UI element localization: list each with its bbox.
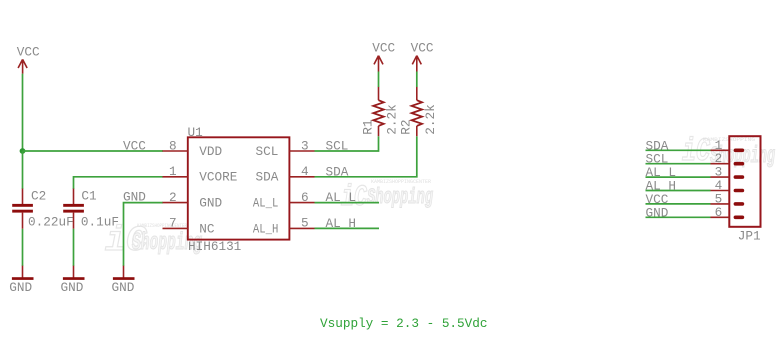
JP1 pin 1: [711, 138, 745, 153]
svg-text:NC: NC: [199, 221, 215, 236]
svg-text:VCC: VCC: [411, 41, 434, 56]
IC U1 HIH6131 body: [188, 125, 290, 254]
svg-text:VDD: VDD: [199, 144, 222, 159]
pin 4 (SDA): [289, 164, 314, 179]
junction node: [20, 148, 26, 154]
svg-text:5: 5: [301, 216, 309, 231]
pin 5 (AL_H): [289, 216, 314, 231]
wire SDA to JP1 pin 1: [646, 149, 711, 151]
wire pin 2 to ground: [124, 203, 164, 266]
wire SDA to R2: [315, 136, 417, 177]
svg-text:SCL: SCL: [256, 144, 279, 159]
svg-text:U1: U1: [188, 125, 203, 140]
wire junction to pin 8: [23, 150, 164, 152]
pin 3 (SCL): [289, 138, 314, 153]
svg-text:3: 3: [301, 138, 309, 153]
svg-text:R1: R1: [360, 119, 375, 134]
svg-text:GND: GND: [199, 196, 222, 211]
svg-text:0.22uF: 0.22uF: [28, 215, 74, 230]
wire GND to JP1 pin 6: [646, 216, 711, 218]
svg-text:C2: C2: [31, 189, 46, 204]
svg-text:VCC: VCC: [123, 139, 146, 154]
svg-text:8: 8: [169, 138, 177, 153]
svg-text:GND: GND: [61, 280, 84, 295]
svg-text:GND: GND: [9, 280, 32, 295]
wire AL_L to JP1 pin 3: [646, 176, 711, 178]
pin 6 (AL_L): [289, 190, 314, 205]
svg-text:6: 6: [715, 205, 723, 220]
wire AL_H to JP1 pin 4: [646, 190, 711, 192]
svg-text:VCC: VCC: [17, 45, 40, 60]
power VCC symbol (above R1): [372, 41, 395, 72]
wire junction down to C2: [22, 151, 24, 189]
wire SCL to JP1 pin 2: [646, 163, 711, 165]
pin 8 (VDD): [163, 138, 188, 153]
svg-text:7: 7: [169, 216, 177, 231]
svg-text:2.2k: 2.2k: [423, 104, 438, 134]
wire VCC to JP1 pin 5: [646, 203, 711, 205]
svg-text:VCORE: VCORE: [199, 170, 237, 185]
wire SCL to R1: [315, 136, 379, 151]
JP1 pin 4: [711, 178, 745, 193]
svg-text:6: 6: [301, 190, 309, 205]
ground (under C1): [61, 266, 85, 295]
JP1 pin 2: [711, 151, 745, 166]
svg-text:VCC: VCC: [372, 41, 395, 56]
capacitor C2: [12, 189, 73, 230]
resistor R1: [360, 87, 399, 137]
svg-text:Shopping: Shopping: [367, 185, 433, 210]
capacitor C1: [63, 189, 119, 230]
svg-text:AL_L: AL_L: [253, 196, 279, 211]
JP1 pin 3: [711, 165, 745, 180]
connector JP1 body: [729, 136, 760, 243]
wire C1 to ground: [73, 229, 75, 266]
svg-text:Vsupply = 2.3 - 5.5Vdc: Vsupply = 2.3 - 5.5Vdc: [320, 316, 488, 331]
wire AL_H stub: [315, 227, 380, 229]
power VCC symbol (top left): [17, 45, 40, 74]
svg-text:C1: C1: [81, 189, 96, 204]
svg-text:0.1uF: 0.1uF: [81, 215, 119, 230]
svg-text:KAMBIZSHOPPINGCENTER: KAMBIZSHOPPINGCENTER: [371, 178, 432, 185]
wire pin 1 to C1: [74, 177, 164, 189]
wire AL_L stub: [315, 202, 380, 204]
power VCC symbol (above R2): [411, 41, 434, 72]
svg-text:4: 4: [301, 164, 309, 179]
ground (pin 2 net): [112, 266, 135, 295]
svg-text:R2: R2: [399, 119, 414, 134]
wire VCC to R1: [378, 72, 380, 88]
JP1 pin 6: [711, 205, 745, 220]
svg-text:2.2k: 2.2k: [385, 104, 400, 134]
JP1 pin 5: [711, 191, 745, 206]
svg-text:1: 1: [169, 164, 177, 179]
svg-text:AL_H: AL_H: [253, 221, 279, 236]
ground (under C2): [9, 266, 33, 295]
wire VCC down to junction: [22, 74, 24, 151]
resistor R2: [399, 87, 438, 137]
svg-text:GND: GND: [112, 280, 135, 295]
svg-text:SDA: SDA: [256, 170, 279, 185]
wire VCC to R2: [416, 72, 418, 88]
svg-text:2: 2: [169, 190, 177, 205]
svg-text:JP1: JP1: [738, 229, 761, 244]
wire C2 to ground: [22, 229, 24, 266]
pin 7 (NC): [163, 216, 188, 231]
svg-text:HIH6131: HIH6131: [188, 239, 241, 254]
pin 1 (VCORE): [163, 164, 188, 179]
pin 2 (GND): [163, 190, 188, 205]
